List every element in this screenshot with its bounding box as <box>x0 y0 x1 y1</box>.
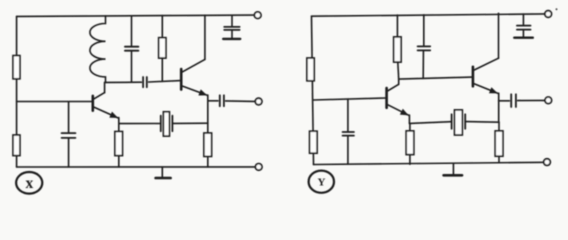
wire: Q4 emitter vertical <box>498 101 500 123</box>
wire: circuit Y ground bottom rail <box>314 162 544 164</box>
label: circle X <box>16 172 42 194</box>
transistor Q1 base bar (circuit X) <box>92 96 95 111</box>
wire: crystal to Q4 emitter branch <box>465 121 499 124</box>
resistor R1 (upper bias, circuit X) <box>13 56 20 79</box>
wire: Q1 emitter to crystal <box>119 123 160 125</box>
crystal XT2 (circuit Y) <box>451 114 453 129</box>
svg-text:x: x <box>26 175 34 192</box>
wire: circuit Y base feed to Q3 <box>313 98 386 100</box>
terminal: circuit Y supply (top right) <box>545 11 552 18</box>
resistor R7 (lower bias, circuit Y) <box>310 131 318 153</box>
ground: C5 return bar (circuit X) <box>223 38 240 40</box>
transistor Q1 collector <box>93 93 105 100</box>
terminal: circuit Y ground (bottom right) <box>544 159 551 166</box>
transistor Q4 emitter <box>473 83 498 93</box>
wire: R4 lead <box>207 123 209 167</box>
resistor R3 (Q1 emitter, circuit X) <box>115 132 123 156</box>
wire: circuit X ground bottom rail <box>17 166 256 168</box>
ground: circuit X bottom rail <box>161 167 163 177</box>
wire: R8 upper lead <box>396 15 398 37</box>
transistor Q2 collector <box>181 59 205 72</box>
capacitor C6 (base bypass, circuit Y) <box>343 131 354 133</box>
wire: R8 lower lead <box>397 62 400 79</box>
capacitor C4 (output coupling, circuit X) <box>219 95 221 106</box>
wire: circuit X +V top rail <box>17 15 255 16</box>
wire: C9 upper lead <box>522 14 524 25</box>
wire: circuit X left bias branch <box>16 16 18 167</box>
wire: circuit Y left bias branch <box>312 16 314 164</box>
resistor R4 (Q2 emitter, circuit X) <box>204 133 212 156</box>
speck (scan artifact near Y supply terminal) <box>556 8 558 10</box>
wire: Q3 emitter to crystal <box>409 122 451 124</box>
wire: R9 lead <box>409 123 411 164</box>
resistor R5 (Q2 base bias, circuit X) <box>159 38 166 58</box>
capacitor C3 (interstage coupling, circuit X) <box>142 77 144 87</box>
inductor L1 (collector tank, circuit X) <box>90 16 106 83</box>
transistor Q1 emitter <box>93 107 118 118</box>
wire: C9 lower lead <box>522 30 524 36</box>
transistor Q4 collector <box>473 58 499 70</box>
crystal XT1 (circuit X) <box>160 116 162 132</box>
transistor Q3 base bar (circuit Y) <box>385 88 388 108</box>
wire: C6 upper lead <box>347 99 349 131</box>
wire: C4 to output terminal <box>226 100 256 103</box>
terminal: circuit X output <box>255 98 262 105</box>
wire: Q1 collector node to C3 <box>105 81 141 83</box>
wire: Q3 collector node <box>399 77 473 79</box>
capacitor C1 (base bypass, circuit X) <box>62 132 76 134</box>
terminal: circuit Y output <box>545 97 552 104</box>
wire: C2 lower lead <box>131 52 133 83</box>
capacitor C9 (supply decoupling, circuit Y) <box>517 25 531 27</box>
wire: C6 lower lead <box>347 136 349 164</box>
svg-text:Y: Y <box>318 177 326 189</box>
wire: C3 to Q2 base <box>149 81 182 82</box>
capacitor C2 (tank, circuit X) <box>125 46 138 48</box>
terminal: circuit X ground (bottom right) <box>255 164 262 171</box>
wire: C1 lower lead <box>68 139 70 167</box>
transistor Q2 emitter <box>181 86 207 96</box>
wire: C1 upper lead <box>68 102 70 133</box>
wire: R5 lower lead <box>161 58 163 81</box>
terminal: circuit X supply (top right) <box>254 12 261 19</box>
transistor Q2 base bar (circuit X) <box>180 69 183 90</box>
wire: C2 upper lead <box>131 16 133 46</box>
wire: circuit Y +V top rail <box>312 14 545 16</box>
resistor R9 (Q3 emitter, circuit Y) <box>406 131 414 155</box>
wire: C7 upper lead <box>423 15 425 46</box>
wire: R3 lead <box>118 124 120 167</box>
wire: C7 lower lead <box>422 51 424 78</box>
resistor R2 (lower bias, circuit X) <box>13 135 20 156</box>
transistor Q3 emitter <box>387 104 409 115</box>
resistor R8 (Q3 collector load, circuit Y) <box>394 37 401 62</box>
resistor R6 (upper bias, circuit Y) <box>307 58 314 81</box>
wire: Q4 emitter to C8 <box>499 100 510 102</box>
capacitor C7 (collector shunt, circuit Y) <box>418 45 431 47</box>
wire: Q2 emitter to C4 <box>208 100 218 102</box>
wire: circuit X base feed to Q1 <box>17 101 93 103</box>
transistor Q4 base bar (circuit Y) <box>472 67 475 87</box>
transistor Q3 collector <box>387 84 399 91</box>
wire: C5 lower lead <box>231 31 233 38</box>
wire: crystal to Q2 emitter branch <box>172 122 207 124</box>
wire: R5 upper lead <box>161 16 163 38</box>
wire: R10 lead <box>498 122 500 162</box>
wire: C8 to output terminal <box>518 99 545 101</box>
ground: circuit Y bottom rail <box>452 163 454 174</box>
capacitor C8 (output coupling, circuit Y) <box>510 94 512 107</box>
ground: C9 return bar (circuit Y) <box>514 37 533 39</box>
resistor R10 (Q4 emitter, circuit Y) <box>495 131 503 156</box>
wire: Q2 emitter vertical <box>207 101 209 123</box>
capacitor C5 (supply decoupling, circuit X) <box>224 26 239 28</box>
wire: C5 upper lead <box>231 15 233 26</box>
label: circle Y <box>309 171 334 193</box>
